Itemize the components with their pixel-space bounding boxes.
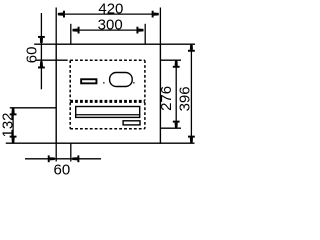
extension line 420 right bbox=[159, 8, 161, 45]
svg-text:60: 60 bbox=[24, 47, 41, 64]
speaker opening bbox=[110, 73, 133, 87]
arrow 300 right bbox=[138, 29, 143, 32]
extension line 60-left bottom (device top extended) bbox=[36, 59, 68, 61]
device outline lower left edge (dashed) bbox=[69, 102, 71, 128]
extension line 396 bottom (panel bottom extended) bbox=[160, 142, 194, 144]
extension line 132 bottom (panel bottom extended) bbox=[6, 142, 56, 144]
device outline upper right edge (dashed) bbox=[144, 60, 146, 100]
arrow 300 left bbox=[73, 29, 78, 32]
extension line 276 bottom (device bottom extended) bbox=[160, 127, 181, 129]
arrow 396 top (points up) bbox=[190, 45, 193, 50]
panel outline (flush-mount box) bbox=[56, 44, 160, 143]
arrow 60-bottom right (points left) bbox=[72, 157, 77, 160]
extension line 60-bottom left (panel left extended) bbox=[55, 143, 57, 161]
arrow 276 top (points up) bbox=[175, 61, 178, 66]
extension line 60-bottom right (device left extended) bbox=[70, 143, 72, 161]
extension line 300 left bbox=[70, 24, 72, 44]
call button bbox=[81, 79, 96, 83]
arrow 132 bottom (points down) bbox=[12, 138, 15, 143]
svg-text:132: 132 bbox=[0, 112, 17, 137]
svg-text:276: 276 bbox=[158, 86, 175, 111]
arrow 276 bottom (points down) bbox=[175, 123, 178, 128]
dim line 420 bbox=[58, 13, 159, 15]
device outline bottom edge (dashed) bbox=[70, 128, 145, 130]
dim line 396 bbox=[190, 44, 192, 143]
arrow 420 right bbox=[154, 13, 159, 16]
extension line 420 left bbox=[55, 8, 57, 45]
arrow 60-bottom left (points right) bbox=[50, 157, 55, 160]
arrow 132 top (points up) bbox=[12, 108, 15, 113]
device outline upper left edge (dashed) bbox=[69, 60, 71, 100]
arrow 60-left lower (points up) bbox=[40, 61, 43, 66]
dim line 132 bbox=[12, 108, 14, 143]
device divider (thick dashed) bbox=[70, 100, 145, 103]
extension line 60-left top (panel top extended) bbox=[34, 43, 56, 45]
svg-text:60: 60 bbox=[54, 162, 71, 176]
letter slot inner line bbox=[75, 114, 140, 116]
svg-text:300: 300 bbox=[98, 16, 123, 33]
device outline lower right edge (dashed) bbox=[144, 102, 146, 128]
extension line 396 top (panel top extended) bbox=[160, 43, 195, 45]
arrow 420 left bbox=[58, 13, 63, 16]
letter slot bbox=[76, 107, 140, 118]
speaker left tick bbox=[103, 82, 104, 83]
arrow 396 bottom (points down) bbox=[190, 138, 193, 143]
speaker right tick bbox=[133, 82, 134, 83]
device outline top edge (dashed) bbox=[70, 59, 145, 61]
arrow 60-left upper (points down) bbox=[40, 38, 43, 43]
svg-text:420: 420 bbox=[98, 1, 123, 18]
name plate below slot bbox=[123, 121, 140, 125]
extension line 300 right bbox=[144, 24, 146, 44]
dim line 60 left bbox=[40, 13, 42, 89]
dim line 300 bbox=[73, 29, 144, 31]
svg-text:396: 396 bbox=[177, 86, 194, 111]
dim line 60 bottom bbox=[25, 158, 101, 160]
dim line 276 bbox=[175, 60, 177, 128]
extension line 132 top (slot top extended) bbox=[10, 107, 56, 109]
extension line 276 top (device top extended) bbox=[160, 59, 181, 61]
